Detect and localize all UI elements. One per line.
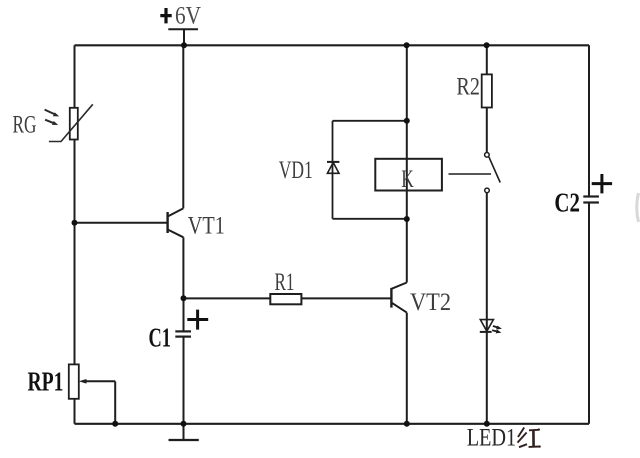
wire VD1 loop top [333,120,407,122]
wire bottom rail [75,423,590,425]
resistor R1 [270,269,301,305]
node bottom rail at ground [181,421,187,427]
wire VD1 loop left [332,121,334,219]
wire relay node to top rail [406,45,408,121]
node bottom rail at RP1 wiper [112,421,118,427]
wire VT2 collector up to relay loop [406,121,408,283]
label LED1 red character [518,428,541,448]
resistor R2 [456,73,492,107]
stray faint mark right edge [637,193,639,222]
svg-text:C1: C1 [149,323,172,353]
svg-text:6V: 6V [175,3,201,30]
node bottom rail at VT2 emitter [404,421,410,427]
svg-text:VD1: VD1 [279,157,313,184]
node top rail at relay branch [404,42,410,48]
capacitor C2 [554,174,612,217]
resistor RG [13,104,93,141]
transistor VT1 [168,208,225,239]
wire base VT1 [75,222,168,224]
wire R2 branch from top rail [486,45,488,74]
node bottom rail at LED [484,421,490,427]
wire right rail upper [588,45,590,196]
node top rail at VT1 collector [181,42,187,48]
wire right rail lower [588,203,590,424]
wire R1 to VT2 base [301,297,391,299]
wire C1 node to bottom rail [183,298,185,331]
svg-text:LED1: LED1 [467,425,517,452]
svg-text:K: K [401,166,414,193]
node VD1 loop bottom [404,216,410,222]
node VD1 loop top [404,118,410,124]
transistor VT2 [391,283,451,316]
node top rail at R2 branch [484,42,490,48]
wire R2 to switch [486,108,488,153]
power +6V [160,3,201,46]
svg-text:RG: RG [13,111,37,138]
wire VT2 emitter to bottom rail [406,313,408,424]
ground [169,424,199,440]
wire VD1 loop bottom [333,218,407,220]
svg-text:R2: R2 [456,73,480,100]
diode VD1 [279,157,340,184]
wire VT1 collector to top rail [182,45,184,208]
relay K [375,159,442,193]
wire left rail [74,45,76,424]
wire VT1 emitter down to C1 node [182,237,184,298]
node left rail at VT1 base [72,220,78,226]
wire top rail [75,44,590,46]
svg-text:R1: R1 [275,269,295,296]
svg-text:RP1: RP1 [28,367,64,397]
wire C1 node to R1 [184,297,271,299]
svg-text:C2: C2 [554,187,580,217]
LED LED1 [467,320,517,452]
svg-text:VT2: VT2 [410,289,451,316]
node C1 top [181,295,187,301]
wire switch to LED to bottom rail [486,193,488,424]
capacitor C1 [149,310,209,353]
svg-text:VT1: VT1 [188,213,225,240]
switch contact of relay [449,153,501,193]
potentiometer RP1 [28,364,116,423]
